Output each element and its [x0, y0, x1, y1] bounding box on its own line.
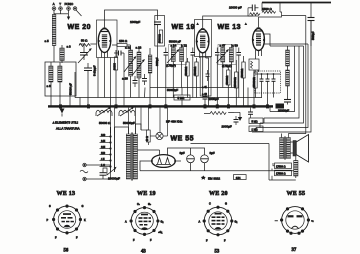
- nest vertical 6: [288, 16, 305, 134]
- svg-text:G₁: G₁: [235, 221, 238, 224]
- nest top links: [264, 16, 308, 47]
- WE55 leads: [137, 148, 181, 171]
- svg-text:ALLA TARATURA: ALLA TARATURA: [56, 127, 80, 131]
- svg-text:8µF: 8µF: [180, 151, 185, 155]
- tuner coil L4: [58, 62, 62, 96]
- cap 2000uF top of bus: [203, 93, 208, 106]
- output transformer primary: [280, 134, 284, 159]
- socket WE55 outer: [282, 207, 309, 234]
- terminal block a49: [276, 104, 285, 109]
- AVC chain coil lower: [286, 66, 290, 97]
- svg-text:T: T: [59, 2, 61, 6]
- IF2 cap right: [237, 48, 242, 61]
- nest vertical 5: [252, 21, 311, 133]
- marker triangle WE19: [196, 22, 199, 25]
- svg-text:P: P: [47, 219, 49, 222]
- svg-text:—: —: [275, 220, 278, 223]
- svg-text:●G₁: ●G₁: [158, 231, 162, 234]
- switch lever from FONO2: [76, 10, 82, 16]
- detector cap 1: [260, 74, 264, 88]
- cap 5000uF top right: [308, 18, 315, 47]
- AC terminal lower: [83, 177, 103, 180]
- coupling cap 1000uF: [154, 22, 161, 28]
- switch top wire: [111, 127, 115, 133]
- svg-text:1 C: 1 C: [101, 164, 105, 167]
- resistor 50000 ohm vert A: [185, 58, 189, 98]
- wire tuner box down to bus: [51, 90, 70, 106]
- resistor 50000 ohm IF2: [226, 66, 230, 106]
- resistor 17500 ohm upper: [275, 163, 292, 169]
- resistor 50000 vertical x243: [241, 56, 245, 106]
- svg-text:17500 Ω: 17500 Ω: [276, 173, 286, 176]
- svg-text:A: A: [53, 2, 55, 6]
- svg-text:56: 56: [64, 249, 69, 254]
- wire WE19 cathode drop: [203, 58, 209, 106]
- resistor 250000 ohm IF2: [234, 60, 238, 106]
- line cap: [100, 170, 107, 179]
- socket WE20 outer: [204, 207, 232, 235]
- resistor box 1Mohm lower: [249, 126, 263, 132]
- cathode resistor box WE13: [249, 56, 259, 106]
- AC terminal upper: [83, 163, 111, 166]
- svg-text:G: G: [82, 205, 84, 208]
- svg-text:Gₒ: Gₒ: [148, 203, 151, 206]
- marker triangle WE13: [244, 22, 247, 25]
- svg-text:250000Ω: 250000Ω: [253, 77, 256, 87]
- svg-text:WE 55: WE 55: [287, 191, 306, 197]
- trimmer arrow 2: [124, 56, 136, 72]
- pilot lamp: [148, 132, 167, 145]
- svg-text:G₂: G₂: [161, 221, 164, 224]
- wires right block: [256, 106, 275, 181]
- svg-text:WE 55: WE 55: [171, 136, 195, 143]
- svg-text:110: 110: [101, 152, 106, 155]
- socket WE55 cathode arc: [292, 226, 299, 228]
- wire resistor to WE20 shield: [90, 43, 96, 45]
- resistor zigzag 15000: [250, 13, 261, 16]
- svg-text:WE 20: WE 20: [68, 24, 92, 31]
- resistor 30000 vertical: [114, 50, 118, 106]
- svg-text:A: A: [199, 221, 201, 224]
- padder cap C4: [133, 76, 138, 87]
- IF2 cap left: [215, 48, 220, 61]
- detector cap 3: [272, 74, 276, 88]
- bottom long wire: [140, 170, 296, 172]
- svg-text:F: F: [55, 237, 57, 240]
- rectifier tube WE55: [151, 155, 176, 168]
- plate wire WE13 right: [264, 34, 270, 46]
- svg-text:2000µF: 2000µF: [209, 97, 219, 101]
- wire caps top rail: [176, 148, 205, 150]
- label 50000 ohm right of WE19: [194, 58, 198, 98]
- switch tap dots: [109, 135, 111, 167]
- main ground bus: [48, 105, 273, 107]
- field coil: [294, 156, 298, 178]
- svg-text:50000Ω: 50000Ω: [194, 67, 197, 76]
- filament hump arrow right: [120, 107, 134, 116]
- ground symbol: [60, 109, 65, 117]
- svg-text:C: C: [209, 203, 211, 206]
- output transformer core: [284, 137, 285, 160]
- resistor 50 ohm: [79, 39, 90, 47]
- IF1 coil B: [180, 44, 184, 66]
- svg-text:43: 43: [141, 250, 146, 254]
- svg-text:FONO: FONO: [65, 2, 74, 6]
- svg-text:(175µF): (175µF): [166, 64, 176, 68]
- cap 10000uF: [248, 5, 258, 12]
- svg-text:50 Ω: 50 Ω: [81, 39, 88, 43]
- B plus rail: [191, 144, 296, 181]
- nest vertical 3: [260, 46, 304, 123]
- socket WE13 pin labels: [47, 205, 87, 240]
- tube WE13: [252, 27, 265, 56]
- tuner box: [45, 62, 76, 96]
- socket WE13 inner: [58, 211, 76, 229]
- ground symbol 2: [234, 112, 242, 121]
- resistor box 5Mohm lower: [249, 118, 263, 124]
- socket WE55 elements: [288, 215, 303, 217]
- AVC chain coil upper: [286, 46, 290, 66]
- resistor box 50000ohm vertical: [155, 16, 165, 47]
- IF2 can outline: [218, 45, 236, 65]
- svg-text:50000Ω: 50000Ω: [185, 67, 188, 76]
- svg-text:50000 Ω: 50000 Ω: [99, 121, 111, 125]
- svg-text:5000µF: 5000µF: [312, 31, 315, 40]
- power transformer secondary: [133, 134, 137, 179]
- socket WE13 elements: [61, 213, 74, 227]
- svg-text:Cₒ: Cₒ: [137, 203, 140, 206]
- wire bus to switch rails: [111, 108, 168, 136]
- svg-text:a 23: a 23: [136, 46, 142, 50]
- wire terminals to coil: [54, 13, 69, 15]
- svg-text:30000: 30000: [114, 62, 117, 70]
- socket WE55 pins: [280, 207, 310, 235]
- svg-text:WE 13: WE 13: [218, 24, 242, 31]
- svg-text:WE 19: WE 19: [172, 24, 196, 31]
- nest vertical 4: [256, 44, 308, 128]
- resistor 17500 ohm lower: [275, 170, 292, 176]
- wire mid horizontal y97: [75, 97, 262, 99]
- svg-text:WE 20: WE 20: [209, 191, 228, 197]
- svg-text:WE 13: WE 13: [57, 191, 76, 197]
- detector top wire: [255, 74, 281, 106]
- svg-text:a 26: a 26: [122, 77, 128, 81]
- svg-text:50000 µF: 50000 µF: [69, 83, 73, 95]
- svg-text:5 MΩ: 5 MΩ: [252, 121, 258, 124]
- svg-text:50000µF: 50000µF: [167, 88, 178, 92]
- socket WE13 pins: [52, 205, 82, 235]
- svg-text:a 3: a 3: [67, 45, 72, 49]
- svg-text:EM 3322: EM 3322: [208, 176, 220, 180]
- svg-text:F: F: [224, 240, 226, 243]
- filament hump coil right: [119, 110, 135, 116]
- svg-text:50000µF: 50000µF: [123, 121, 135, 125]
- tuner coil L3: [49, 62, 53, 96]
- filament hump coil left: [96, 110, 112, 116]
- switch taps: [100, 137, 111, 167]
- switch rail right: [114, 133, 116, 172]
- resistor 40 ohm: [141, 130, 150, 142]
- svg-text:A: A: [125, 221, 127, 224]
- svg-text:▲ELEMENTI UTILI: ▲ELEMENTI UTILI: [52, 121, 78, 125]
- IF1 cap left: [164, 48, 169, 61]
- socket WE20 pin labels: [199, 203, 238, 243]
- junction dots detector: [261, 73, 275, 75]
- terminal A: [52, 2, 56, 14]
- switch rail left: [110, 133, 112, 172]
- grid wire WE13 top: [258, 17, 260, 27]
- power transformer core: [131, 133, 132, 181]
- detector dashed box: [255, 71, 281, 93]
- cap 2000uF second: [234, 116, 239, 125]
- svg-text:10000µF: 10000µF: [108, 177, 120, 181]
- svg-text:F: F: [133, 239, 135, 242]
- svg-text:S: S: [49, 205, 51, 208]
- resistor 5Mohm box: [174, 95, 190, 100]
- padder cap C5: [142, 74, 147, 85]
- svg-text:1000µF: 1000µF: [130, 20, 140, 24]
- socket WE19 inner: [136, 212, 154, 230]
- output transformer secondary: [286, 134, 290, 159]
- tube WE19: [196, 28, 210, 58]
- svg-text:125: 125: [101, 146, 106, 149]
- wire mid horizontal y87: [150, 87, 236, 89]
- svg-text:●₀: ●₀: [311, 220, 314, 223]
- svg-text:40 Ω: 40 Ω: [146, 136, 149, 141]
- svg-text:F: F: [76, 237, 78, 240]
- IF2 coil A: [221, 44, 225, 66]
- speaker leads: [290, 142, 293, 153]
- filter cap 8uF second: [201, 150, 209, 171]
- IF2 trimmer arrow: [217, 49, 229, 63]
- wire shield drop WE20: [98, 58, 111, 106]
- svg-text:2000µF: 2000µF: [222, 125, 232, 129]
- coupling coil L2: [60, 45, 64, 63]
- socket WE20 inner: [209, 212, 227, 230]
- svg-text:50000Ω: 50000Ω: [158, 34, 161, 43]
- transformer top leads: [111, 124, 142, 134]
- svg-text:10000 µF: 10000 µF: [229, 6, 242, 10]
- socket WE55: [275, 191, 314, 253]
- power transformer primary: [126, 134, 130, 179]
- cap below bus right: [248, 108, 253, 118]
- svg-text:K: K: [84, 219, 86, 222]
- bias box WE19: [200, 57, 211, 96]
- grid cap wire WE20: [105, 10, 158, 28]
- svg-text:154: 154: [236, 176, 241, 180]
- socket WE20: [199, 191, 238, 254]
- svg-text:G: G: [225, 203, 227, 206]
- trimmer arrow 1: [78, 48, 92, 63]
- resistor 150 ohm: [112, 39, 131, 47]
- nest vertical 1: [270, 46, 295, 112]
- trimmer capacitor C1: [80, 47, 88, 60]
- box 154: [234, 175, 247, 180]
- socket WE55 pin labels: [275, 220, 314, 223]
- svg-text:5-30µµF: 5-30µµF: [93, 65, 97, 76]
- svg-text:WE 19: WE 19: [137, 191, 156, 197]
- filament hump arrow left: [97, 107, 111, 116]
- svg-text:HF 469 KHz: HF 469 KHz: [166, 120, 183, 124]
- trimmer arrow 3: [133, 59, 145, 75]
- socket WE13 outer: [54, 206, 81, 233]
- svg-text:8µF: 8µF: [210, 151, 215, 155]
- socket WE19 outer: [131, 208, 158, 235]
- svg-text:5 MΩ: 5 MΩ: [178, 96, 185, 100]
- bus junction blobs: [59, 104, 269, 108]
- speaker cone: [296, 135, 308, 163]
- svg-text:17500 Ω: 17500 Ω: [276, 166, 286, 169]
- resistor zigzag 1500: [262, 11, 276, 14]
- wire trimmers to ground region: [79, 44, 88, 106]
- svg-text:(175µF): (175µF): [222, 64, 232, 68]
- star marker: [201, 176, 206, 180]
- svg-text:20000µF: 20000µF: [278, 109, 289, 113]
- wire top right drop: [310, 3, 312, 18]
- socket WE55 inner: [286, 211, 304, 229]
- nest vertical 2: [264, 46, 299, 118]
- arrow down at FONO junction: [67, 14, 70, 20]
- svg-text:1500 Ω: 1500 Ω: [262, 7, 273, 11]
- tube WE20: [98, 28, 112, 58]
- svg-text:145: 145: [101, 140, 106, 143]
- svg-text:a 8: a 8: [47, 84, 52, 88]
- trimmer capacitor C2: [84, 63, 92, 76]
- osc coil La: [129, 45, 133, 98]
- socket WE19 elements: [139, 214, 152, 230]
- shield box WE20: [97, 20, 118, 58]
- svg-text:50000Ω: 50000Ω: [241, 69, 244, 78]
- terminal FONO2: [73, 7, 77, 11]
- IF1 coil A: [171, 44, 175, 66]
- shield box WE19: [195, 20, 212, 57]
- svg-text:250000Ω: 250000Ω: [234, 77, 237, 87]
- top cluster frame: [248, 3, 282, 18]
- IF1 cap right: [191, 48, 196, 61]
- terminal FONO1: [65, 2, 74, 14]
- capacitor C3: [114, 51, 124, 56]
- svg-text:1 MΩ: 1 MΩ: [252, 129, 258, 132]
- IF2 coil B: [229, 44, 233, 66]
- socket WE20 pins: [203, 206, 234, 237]
- svg-text:160: 160: [101, 134, 106, 137]
- IF1 can outline: [169, 45, 187, 65]
- switch tap labels: [101, 134, 106, 167]
- IF1 trimmer arrow: [167, 49, 179, 63]
- switch wiper: [107, 167, 117, 175]
- svg-text:53: 53: [215, 250, 220, 254]
- resistor zigzag below bus: [204, 112, 234, 115]
- socket WE13: [47, 191, 87, 254]
- wire drops left section: [75, 46, 248, 106]
- svg-text:37: 37: [292, 248, 297, 253]
- speaker magnet bar: [293, 141, 296, 157]
- wire coil to lower coil: [53, 46, 55, 63]
- grid cap wire WE19: [203, 16, 253, 28]
- AC squiggle: [80, 170, 88, 173]
- filter cap 8uF first: [187, 150, 195, 171]
- terminal T: [59, 2, 63, 14]
- svg-text:50000Ω: 50000Ω: [226, 76, 229, 85]
- antenna coil L1: [52, 15, 56, 46]
- AVC cap bottom: [284, 97, 291, 105]
- socket WE19: [125, 191, 163, 254]
- svg-text:a 5: a 5: [45, 39, 50, 43]
- socket WE20 elements: [212, 213, 225, 230]
- osc coil Lb: [137, 48, 141, 98]
- svg-text:a 60: a 60: [232, 44, 238, 48]
- svg-text:150 Ω: 150 Ω: [119, 39, 128, 43]
- svg-text:F: F: [206, 240, 208, 243]
- wire AC to switch: [103, 168, 111, 179]
- socket WE19 pins: [130, 206, 160, 236]
- resistor 250000 ohm WE13: [253, 70, 259, 98]
- osc section coil Lc: [148, 48, 152, 106]
- socket WE19 pin labels: [125, 203, 163, 242]
- top bus wire: [262, 2, 331, 4]
- svg-text:4 5: 4 5: [101, 158, 105, 161]
- detector cap 2: [266, 74, 270, 88]
- svg-text:F: F: [150, 239, 152, 242]
